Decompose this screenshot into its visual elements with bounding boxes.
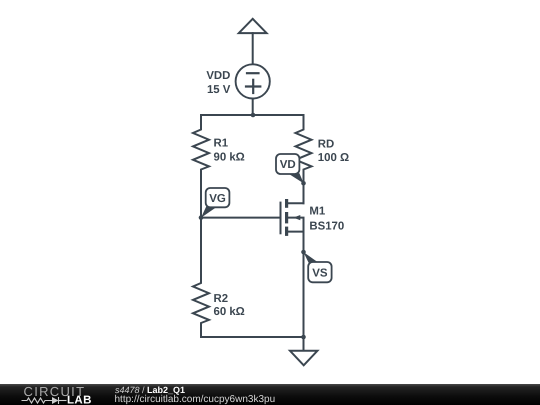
wire gate — [201, 217, 281, 219]
logo icon wire-resistor-diode — [22, 397, 67, 404]
transistor M1 bulk arrow — [293, 215, 300, 220]
svg-text:60 kΩ: 60 kΩ — [214, 306, 245, 318]
node label box VG — [206, 188, 230, 207]
svg-text:VD: VD — [280, 159, 296, 171]
callout pointer VS — [303, 252, 319, 263]
resistor R1 — [193, 115, 209, 218]
svg-text:R1: R1 — [214, 138, 229, 150]
ground triangle — [290, 351, 317, 366]
svg-text:LAB: LAB — [67, 394, 92, 405]
power flag VDD (up arrow) — [239, 19, 267, 33]
wire source to top rail — [252, 99, 254, 116]
svg-text:RD: RD — [318, 138, 334, 150]
callout pointer VG — [201, 207, 217, 218]
node label box VS — [308, 262, 331, 282]
svg-text:VDD: VDD — [206, 70, 230, 82]
resistor RD — [296, 115, 312, 203]
svg-text:90 kΩ: 90 kΩ — [214, 152, 245, 164]
minus sign — [247, 72, 259, 74]
callout pointer VD — [288, 173, 304, 183]
resistor R2 — [193, 218, 209, 337]
svg-text:M1: M1 — [309, 206, 325, 218]
svg-text:http://circuitlab.com/cucpy6wn: http://circuitlab.com/cucpy6wn3k3pu — [115, 394, 276, 405]
footer bar — [0, 384, 540, 405]
wire top rail — [201, 114, 304, 116]
node junction dot top rail — [251, 113, 256, 118]
transistor M1 channel bars — [285, 199, 288, 208]
node junction dot bottom rail — [301, 335, 306, 340]
svg-text:BS170: BS170 — [309, 221, 344, 233]
transistor M1 bulk lead — [288, 218, 304, 232]
node junction dot VS — [301, 250, 306, 255]
transistor M1 drain lead — [288, 183, 304, 203]
svg-text:15 V: 15 V — [207, 84, 231, 96]
node junction dot VD — [301, 181, 306, 186]
svg-text:R2: R2 — [214, 293, 229, 305]
node junction dot VG — [199, 215, 204, 220]
wire arrow to source — [252, 33, 254, 64]
transistor M1 source lead — [288, 231, 304, 233]
svg-text:VS: VS — [312, 268, 328, 280]
plus sign — [246, 85, 260, 87]
voltage source VDD circle — [236, 64, 270, 98]
ground stem — [303, 337, 305, 351]
svg-text:VG: VG — [209, 193, 226, 205]
wire bottom rail — [201, 336, 304, 338]
node label box VD — [276, 154, 299, 174]
svg-text:100 Ω: 100 Ω — [318, 152, 349, 164]
wire source to ground rail — [303, 232, 305, 337]
transistor M1 gate line — [280, 203, 282, 234]
